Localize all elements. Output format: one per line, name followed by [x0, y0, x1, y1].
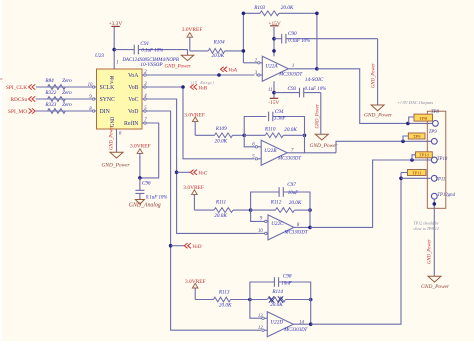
svg-text:GND_Power: GND_Power	[165, 64, 191, 69]
svg-text:close to TP8-12: close to TP8-12	[414, 226, 439, 231]
svg-text:SCLK: SCLK	[100, 85, 116, 91]
svg-text:10-VSSOP: 10-VSSOP	[140, 62, 163, 68]
svg-text:GND_Power: GND_Power	[316, 104, 321, 129]
svg-text:GND_Power: GND_Power	[102, 163, 131, 169]
svg-text:20.0K: 20.0K	[270, 302, 283, 308]
svg-text:R110: R110	[264, 127, 276, 133]
svg-text:GND_Power: GND_Power	[364, 113, 393, 119]
svg-text:0.1uF 10%: 0.1uF 10%	[141, 48, 163, 53]
svg-text:0.1uF 10%: 0.1uF 10%	[288, 39, 310, 44]
svg-text:R114: R114	[271, 288, 283, 295]
svg-text:3.0VREF: 3.0VREF	[182, 27, 203, 33]
svg-text:C97: C97	[287, 182, 296, 188]
svg-text:SPI_CLK: SPI_CLK	[6, 85, 27, 91]
svg-text:VoC: VoC	[128, 97, 138, 103]
svg-text:GND_Analog: GND_Analog	[129, 203, 161, 209]
svg-text:VoD: VoD	[192, 244, 201, 250]
svg-text:Vdd: Vdd	[111, 75, 116, 84]
svg-text:GND_Power: GND_Power	[310, 143, 339, 149]
svg-text:10: 10	[258, 229, 263, 234]
svg-text:GND_Power: GND_Power	[421, 284, 450, 290]
svg-text:20.0K: 20.0K	[214, 213, 227, 219]
svg-text:20.0K: 20.0K	[284, 127, 297, 133]
svg-text:RDCSn: RDCSn	[10, 97, 27, 103]
svg-text:Zero: Zero	[62, 78, 72, 84]
svg-text:VoB: VoB	[128, 85, 138, 91]
svg-text:DIN: DIN	[100, 109, 111, 115]
svg-text:U22B: U22B	[264, 148, 277, 154]
svg-text:C94: C94	[275, 108, 284, 115]
svg-text:C90: C90	[288, 31, 297, 37]
svg-text:12: 12	[258, 326, 263, 331]
svg-text:U23: U23	[95, 53, 104, 59]
svg-text:20.0K: 20.0K	[219, 302, 232, 308]
svg-text:TP8: TP8	[419, 116, 427, 121]
svg-text:VoA: VoA	[128, 73, 139, 79]
svg-text:R109: R109	[215, 126, 227, 132]
svg-text:10nF: 10nF	[288, 191, 299, 196]
svg-text:MC3303DT: MC3303DT	[283, 328, 307, 333]
svg-text:TP11: TP11	[412, 170, 422, 175]
svg-text:20.0K: 20.0K	[281, 5, 294, 11]
svg-text:+3.3V: +3.3V	[109, 21, 123, 27]
svg-text:C98: C98	[283, 274, 292, 280]
svg-text:+/-5V DAC Outputs: +/-5V DAC Outputs	[397, 100, 433, 105]
svg-text:11: 11	[268, 88, 272, 93]
svg-text:C91: C91	[140, 41, 149, 47]
svg-text:«: «	[0, 76, 3, 82]
svg-text:TP11: TP11	[435, 177, 445, 182]
svg-text:VoB: VoB	[198, 86, 207, 92]
svg-text:20.0K: 20.0K	[215, 138, 228, 144]
svg-text:RefIN: RefIN	[124, 120, 139, 127]
svg-text:1: 1	[116, 61, 118, 66]
svg-text:R84: R84	[44, 77, 54, 84]
svg-text:TP12gnd: TP12gnd	[437, 193, 455, 198]
svg-text:R104: R104	[213, 38, 225, 45]
svg-text:MC3303DT: MC3303DT	[278, 72, 302, 77]
svg-text:Zero: Zero	[62, 90, 72, 96]
svg-text:GND: GND	[111, 116, 116, 127]
svg-text:Zero: Zero	[62, 102, 72, 108]
svg-text:MC3303DT: MC3303DT	[277, 156, 301, 161]
svg-text:10nF: 10nF	[281, 281, 292, 286]
svg-text:GND_Power: GND_Power	[371, 63, 376, 88]
svg-text:R323: R323	[44, 102, 56, 108]
svg-text:TP9: TP9	[429, 130, 438, 135]
svg-text:0.1uF 10%: 0.1uF 10%	[305, 87, 327, 92]
svg-text:R112: R112	[270, 199, 282, 205]
svg-text:-15V: -15V	[268, 100, 279, 106]
svg-text:R111: R111	[215, 199, 227, 205]
svg-text:(J5 Range): (J5 Range)	[191, 81, 215, 85]
svg-text:VoD: VoD	[128, 109, 139, 115]
svg-text:3.0VREF: 3.0VREF	[130, 143, 151, 149]
svg-text:MC3303DT: MC3303DT	[284, 231, 308, 236]
svg-text:20.0K: 20.0K	[212, 53, 225, 59]
svg-text:20.0K: 20.0K	[289, 200, 302, 206]
svg-text:U22A: U22A	[265, 64, 278, 70]
svg-text:TP9: TP9	[413, 134, 421, 139]
svg-text:+15V: +15V	[268, 21, 280, 27]
svg-text:U22D: U22D	[270, 320, 283, 326]
svg-text:13: 13	[258, 314, 263, 319]
svg-text:VoC: VoC	[198, 171, 207, 177]
svg-text:14: 14	[299, 320, 304, 325]
svg-text:SYNC: SYNC	[100, 97, 116, 103]
svg-text:C96: C96	[142, 181, 151, 187]
svg-text:R322: R322	[44, 90, 56, 96]
svg-text:TP8: TP8	[431, 110, 440, 115]
svg-text:0.1uF 10%: 0.1uF 10%	[146, 196, 168, 201]
svg-text:1: 1	[292, 64, 294, 69]
svg-text:R103: R103	[253, 5, 265, 11]
svg-text:TP10: TP10	[437, 157, 448, 162]
svg-text:10: 10	[88, 83, 93, 88]
svg-text:SPI_MO: SPI_MO	[8, 109, 27, 115]
svg-text:C93: C93	[288, 86, 297, 92]
svg-text:GND_Power: GND_Power	[110, 125, 115, 150]
svg-text:TP12 should be: TP12 should be	[414, 220, 439, 225]
svg-text:VoA: VoA	[228, 68, 237, 74]
svg-text:14-SOIC: 14-SOIC	[305, 76, 324, 83]
svg-text:U22C: U22C	[271, 221, 284, 227]
svg-text:3.3nF: 3.3nF	[274, 116, 287, 121]
svg-text:GND_Power: GND_Power	[428, 239, 433, 264]
svg-text:TP10: TP10	[419, 153, 430, 158]
svg-text:R113: R113	[218, 289, 230, 295]
